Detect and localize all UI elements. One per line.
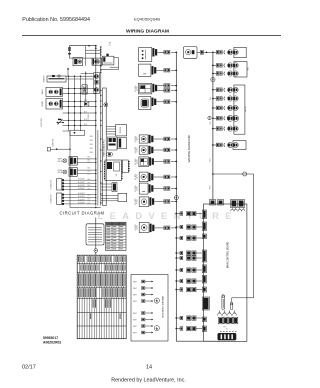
svg-text:BLK: BLK [88,168,91,170]
branch connector 10 [175,326,202,330]
wire rail C [100,47,102,206]
pump P3 [94,88,98,92]
wire top feed [160,51,164,53]
svg-text:WHT: WHT [210,185,212,189]
part number text [43,336,61,345]
wiring component row 6 [135,146,177,154]
wire rail A [95,46,97,206]
wiring component row 7 [135,157,177,167]
branch connector 4 [175,251,202,255]
svg-text:BLK-WHT: BLK-WHT [78,179,85,181]
right row 3 motors [212,71,238,76]
pump box [94,73,100,94]
svg-text:EQ4D50QS4B: EQ4D50QS4B [134,16,160,21]
wiring component row 11 [135,223,177,233]
svg-text:BLK: BLK [84,100,87,102]
pump P2 [94,74,98,78]
right row 6 [212,105,238,110]
header rule [22,35,281,37]
svg-text:ICE MKR: ICE MKR [135,198,137,205]
ground symbol G2 [154,326,159,331]
header publication number [22,17,90,23]
relay pair 1 [58,156,97,165]
relay RL1 [73,58,82,66]
flow meter box [82,85,87,94]
svg-text:BLK-WHT: BLK-WHT [78,188,85,190]
node junction [94,249,98,253]
svg-text:CONN: CONN [137,199,139,204]
svg-text:CONN: CONN [137,175,139,180]
header model number [134,16,160,21]
svg-text:ICE MKR: ICE MKR [135,173,137,180]
branch connector 6 [175,268,202,272]
svg-text:CONN: CONN [137,159,139,164]
wiring component row 2 [139,64,178,76]
svg-text:RINSE: RINSE [58,170,63,172]
footer date [22,364,36,370]
svg-text:BLK: BLK [84,124,87,126]
svg-text:ORN: ORN [90,152,93,154]
svg-text:CONN: CONN [137,137,139,142]
right row 4 [212,87,238,92]
connector group 1 [51,179,97,191]
wire chain [81,71,94,101]
main control board box [204,204,247,341]
relay K1 [46,87,63,96]
wire drop [69,131,71,208]
svg-text:BLK: BLK [88,197,91,199]
wiring component row 1 [139,48,178,62]
svg-text:WHT: WHT [133,282,137,284]
svg-text:J1: J1 [226,329,228,331]
svg-text:BLK-WHT: BLK-WHT [78,202,85,204]
svg-text:BLK: BLK [88,173,91,175]
pump P1 [184,47,201,59]
wire loop [101,58,119,70]
svg-text:BLK: BLK [88,203,91,205]
wiring component row 5 [135,135,177,143]
svg-text:ORN: ORN [90,140,93,142]
wire fuse feed [232,298,247,302]
interlock box [102,54,114,65]
svg-text:WHT: WHT [133,301,137,303]
aux box F [101,193,127,201]
dashed pins [220,330,237,332]
vert labels right [210,97,212,125]
svg-text:CONNECTOR: CONNECTOR [51,193,53,204]
buzzer BZ1 [104,103,108,107]
wiring component row 3 [135,83,177,94]
svg-text:ICE MKR: ICE MKR [135,184,137,191]
label WIRING DIAGRAM vertical [187,135,191,162]
wire cross run [212,173,253,175]
chain label [88,113,90,121]
svg-text:WHT: WHT [133,313,137,315]
board top connectors [210,200,245,208]
label S1 [41,118,43,127]
wiring component row 8 [135,172,177,182]
node symbol [208,116,211,119]
switch S1 [57,119,65,125]
svg-text:BLK: BLK [88,159,91,161]
svg-text:ICE MKR: ICE MKR [135,158,137,165]
svg-text:BLK-WHT: BLK-WHT [78,199,85,201]
svg-text:BLK: BLK [88,179,91,181]
wire [86,48,101,54]
relay K2 [46,99,63,110]
ground symbol G1 [154,298,159,303]
wire bottom run [176,340,219,342]
svg-text:ORN: ORN [90,144,93,146]
right row 2 motors [212,63,238,68]
right row 7 [212,115,239,121]
grounding box [131,275,168,342]
svg-text:ICE MKR: ICE MKR [135,146,137,153]
svg-text:WASH: WASH [41,89,44,95]
branch connector 8 [175,287,202,291]
board bottom connector [218,327,237,341]
svg-text:CIRCUIT DIAGRAM: CIRCUIT DIAGRAM [59,210,104,215]
svg-text:A06Z02R02: A06Z02R02 [43,341,61,345]
wire rail B [97,130,99,206]
node ring mid [243,172,247,176]
svg-text:CONN: CONN [137,225,139,230]
main board PCB box [103,88,107,206]
svg-text:WHT: WHT [133,326,137,328]
plug bowtie [84,102,89,106]
capacitor C1 [68,47,71,54]
top connector plugs [231,208,245,212]
wire bottom rung [70,207,101,208]
svg-text:GROUNDING DIAGRAM: GROUNDING DIAGRAM [162,296,165,319]
footer page number [146,364,152,370]
right row 8 [212,126,238,131]
plug [200,50,213,54]
terminator box [63,130,85,135]
svg-text:WHT: WHT [133,320,137,322]
svg-text:BLK: BLK [88,171,91,173]
svg-text:BLK: BLK [88,182,91,184]
board left connectors [202,210,209,332]
connector group 2 [51,193,97,205]
watermark LEADVENTURE [98,211,238,221]
svg-text:59953017: 59953017 [43,336,58,340]
right row 9 [212,141,246,150]
wire [66,78,94,80]
svg-text:ICE MKR: ICE MKR [135,135,137,142]
label heater [43,75,46,82]
right group box [234,85,247,134]
heater box [47,75,66,82]
svg-text:BLK: BLK [84,119,87,121]
svg-text:BLK: BLK [88,188,91,190]
wiring component row 10 [135,197,177,207]
svg-text:LEADVENTURE: LEADVENTURE [98,211,238,221]
wire top [69,45,96,47]
footer credit [111,378,186,384]
svg-text:FILL: FILL [210,97,212,100]
node ring right [211,77,215,81]
legend table [106,222,127,250]
branch connector 2 [175,225,202,229]
right row 5 [212,96,238,101]
svg-text:VALVES: VALVES [244,105,247,112]
svg-text:P3 CONN: P3 CONN [88,113,90,121]
tiny label J1 [226,329,228,331]
svg-text:ICE: ICE [210,122,212,125]
svg-text:WHT: WHT [133,333,137,335]
svg-text:MAIN CONTROL BOARD: MAIN CONTROL BOARD [227,241,230,268]
relay pair 2 [58,168,97,177]
wire [66,76,94,77]
board plug pins [218,311,237,316]
wire [69,46,92,66]
svg-text:ORN: ORN [90,136,93,138]
svg-text:02/17: 02/17 [22,364,36,370]
svg-text:BLK: BLK [88,194,91,196]
wire labels [88,157,91,206]
svg-text:BLK-WHT: BLK-WHT [78,196,85,198]
wire labels 2 [90,136,93,154]
wire [68,46,70,58]
board connector strip [218,317,237,324]
svg-text:CONNECTOR: CONNECTOR [51,179,53,190]
aux wires E [101,183,117,192]
svg-text:14: 14 [146,364,152,370]
svg-text:ORN: ORN [90,148,93,150]
svg-text:DOOR SW: DOOR SW [41,118,43,127]
wire rails mid [69,76,81,131]
svg-text:P2: P2 [224,327,226,329]
rung labels [84,87,87,126]
fuse F1 [222,295,225,310]
UI board [104,160,123,181]
component oval [106,152,113,156]
branch connector 9 [175,316,202,320]
wire rungs [63,88,97,126]
svg-text:BLK-WHT: BLK-WHT [78,185,85,187]
bus label [210,158,212,189]
side connector [122,160,129,173]
svg-text:TOUCH: TOUCH [120,127,122,134]
svg-text:BLK: BLK [88,157,91,159]
svg-text:BLK: BLK [88,185,91,187]
wire [95,252,97,255]
wire chart table [77,255,126,339]
wire [95,218,97,249]
right rows 2-3 box [234,62,250,78]
svg-text:WIRING DIAGRAM: WIRING DIAGRAM [187,135,191,162]
svg-text:ICE MKR: ICE MKR [135,85,137,92]
touch panel box [106,125,127,136]
wire bus left [175,52,177,341]
wiring component row 4 [139,97,178,110]
label K1 [41,89,44,95]
svg-text:BLK: BLK [88,200,91,202]
svg-text:CONN: CONN [137,186,139,191]
svg-text:CONN: CONN [137,86,139,91]
svg-text:WIRING DIAGRAM: WIRING DIAGRAM [126,29,169,35]
svg-text:HEATER: HEATER [43,75,46,82]
wire [67,68,68,76]
svg-text:CONN: CONN [137,148,139,153]
svg-text:Rendered by LeadVenture, Inc.: Rendered by LeadVenture, Inc. [111,378,186,384]
float switch S2 [47,139,70,151]
svg-text:WHT: WHT [133,295,137,297]
svg-text:L1: L1 [109,44,111,46]
svg-text:Publication No. 5995684494: Publication No. 5995684494 [22,17,90,23]
motor box [92,58,102,65]
rail junction dots [100,46,101,203]
motor M1 [95,59,100,64]
caption CIRCUIT DIAGRAM [59,210,104,215]
branch connector 5 [175,256,202,260]
svg-text:BLK-WHT: BLK-WHT [78,182,85,184]
notes box [86,224,104,245]
element E1 [95,80,98,84]
node ring bus [174,196,178,200]
svg-text:ICE MKR: ICE MKR [135,223,137,230]
wire bus right [212,52,214,199]
svg-text:BLK: BLK [84,111,87,113]
label K2 [41,101,44,107]
ui cluster B [108,137,127,150]
svg-text:BLK: BLK [88,162,91,164]
fuse F2 [230,302,232,310]
svg-text:MAIN BOARD P12: MAIN BOARD P12 [103,139,106,157]
svg-text:WHT: WHT [133,288,137,290]
svg-text:DRAIN: DRAIN [41,101,44,107]
wire right drop [247,174,254,298]
branch connector 3 [175,236,202,240]
svg-text:BLK-WHT: BLK-WHT [78,193,85,195]
label main control board [227,241,230,268]
page title WIRING DIAGRAM [126,29,169,35]
wiring component row 9 [135,183,177,194]
right row 1 motors [212,47,246,57]
branch connector 7 [175,279,202,283]
label [109,42,111,46]
branch connector 1 [175,211,202,215]
